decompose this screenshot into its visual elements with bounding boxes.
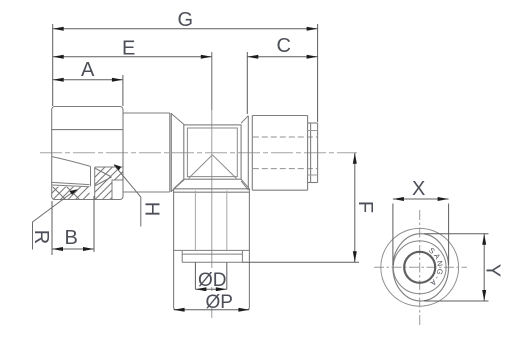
X/Y dimensions <box>393 199 489 301</box>
B ext lines <box>51 201 53 255</box>
chamfer to right cap <box>241 116 248 124</box>
cone V in block <box>189 155 213 179</box>
notch outline <box>112 180 123 200</box>
leader R <box>33 190 76 250</box>
H leader arrow <box>114 164 122 170</box>
B dim line <box>52 248 94 250</box>
right cap left edges <box>247 116 249 190</box>
centerline vertical (branch axis) <box>211 52 213 110</box>
svg-text:A: A <box>81 59 95 81</box>
E arrows <box>53 55 64 59</box>
branch cap joint line <box>174 249 250 251</box>
Y dim line <box>483 234 485 301</box>
SANG-A curved text <box>427 251 437 283</box>
svg-text:G: G <box>178 9 194 31</box>
hidden tube hole dashed <box>253 136 317 138</box>
X ext lines <box>392 204 394 266</box>
centerline horizontal (main axis) <box>40 152 357 154</box>
right hatch block edge <box>94 167 96 200</box>
Y ext lines <box>424 233 489 235</box>
arrows <box>52 27 357 312</box>
F ext line (collet band bottom projection) <box>242 261 359 263</box>
B arrows <box>52 247 63 251</box>
A dim line <box>53 79 123 81</box>
branch inner hole lines <box>194 191 196 251</box>
svg-text:R: R <box>30 230 52 244</box>
thread taper lower pair <box>52 182 90 184</box>
hex facet line <box>52 129 123 131</box>
branch (bottom) body <box>174 189 250 310</box>
thread bore end vertical <box>90 166 92 186</box>
bore line to center (top of right hatch block) <box>95 166 123 168</box>
ring circle <box>393 241 446 294</box>
leader H <box>114 165 141 226</box>
OD dim line <box>195 288 226 290</box>
hex nut body <box>52 107 123 200</box>
G arrows <box>53 27 64 31</box>
OD ext lines <box>194 263 196 290</box>
crosshair <box>374 266 467 268</box>
ext line left (G/E/A) <box>52 24 54 106</box>
right collet <box>308 123 318 183</box>
OP arrows <box>174 308 185 312</box>
branch top chamfers <box>174 179 184 189</box>
R leader arrow <box>70 189 78 195</box>
F dim line <box>354 153 356 262</box>
svg-text:X: X <box>412 178 425 200</box>
C dim line <box>247 56 317 58</box>
ext line G/C right <box>317 24 319 122</box>
OP dim line (bottom edge) <box>174 309 250 311</box>
oval cap <box>393 234 449 301</box>
thread taper line (section, upper) <box>52 157 91 167</box>
svg-text:E: E <box>122 38 135 60</box>
G dim line <box>53 28 318 30</box>
body circle <box>381 228 459 306</box>
svg-text:F: F <box>354 201 376 213</box>
svg-text:H: H <box>141 202 163 216</box>
hole circle <box>404 252 435 283</box>
center block outer <box>184 125 241 179</box>
collet inner shoulder lines <box>308 130 318 132</box>
svg-text:ØP: ØP <box>206 292 233 313</box>
X arrows <box>393 197 404 201</box>
OD arrows <box>195 287 206 291</box>
Y arrows <box>482 234 486 245</box>
right cap body <box>252 116 307 191</box>
middle cylinder <box>123 113 171 192</box>
drill cone lines <box>95 168 112 177</box>
svg-text:C: C <box>277 35 291 57</box>
C arrows <box>247 55 258 59</box>
branch collet band <box>182 250 242 262</box>
labels <box>200 268 226 287</box>
svg-text:B: B <box>65 227 78 249</box>
center block inner <box>187 128 237 177</box>
F arrows <box>353 153 357 164</box>
svg-text:ØD: ØD <box>198 270 227 291</box>
ext line A right <box>122 75 124 106</box>
X dim line <box>393 198 449 200</box>
E dim line <box>53 56 212 58</box>
chamfer to center block left <box>171 114 184 125</box>
ext line C left <box>246 52 248 114</box>
A arrows <box>53 78 64 82</box>
svg-text:Y: Y <box>482 264 504 277</box>
